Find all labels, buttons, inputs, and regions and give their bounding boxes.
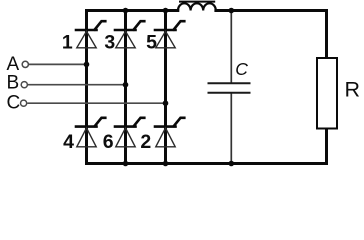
svg-text:5: 5 [146, 31, 157, 53]
svg-text:1: 1 [62, 31, 73, 53]
svg-text:3: 3 [104, 31, 115, 53]
svg-text:R: R [345, 77, 361, 101]
svg-text:4: 4 [63, 131, 74, 153]
svg-text:C: C [235, 59, 248, 79]
svg-text:2: 2 [140, 131, 151, 153]
svg-text:6: 6 [103, 131, 114, 153]
svg-text:C: C [7, 93, 21, 114]
svg-text:B: B [7, 73, 20, 94]
